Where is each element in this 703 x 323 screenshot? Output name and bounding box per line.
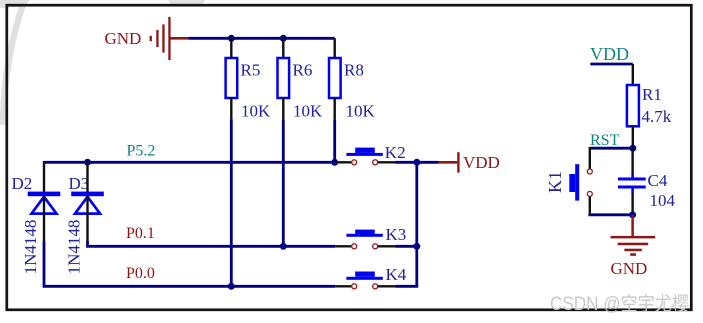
wire: P0.0 rail to K4 [231,285,335,288]
wire: RST rail [590,147,633,150]
node junction at R5 top [228,35,235,42]
node junction R5 / P0.0 [228,283,235,290]
node junction R6 / P0.1 [280,243,287,250]
node junction RST [629,145,636,152]
svg-text:VDD: VDD [590,44,629,64]
svg-text:104: 104 [650,191,676,210]
wire: R8 down to K2 rail [333,119,336,162]
diode D2 [12,161,61,274]
svg-text:10K: 10K [241,102,271,121]
svg-text:VDD: VDD [463,153,500,172]
ground power port GND (top-left) [105,17,189,60]
diode D3 [65,162,104,274]
resistor R6 [278,38,324,120]
node junction K2 / vertical bus [413,159,420,166]
power port VDD (left section) [439,152,500,172]
svg-text:K3: K3 [386,225,407,244]
watermark corner smear [0,0,30,8]
wire: top rail GND to resistors [189,37,335,40]
resistor R1 [627,64,672,148]
wire: VDD stub [590,63,633,66]
svg-text:RST: RST [590,132,620,149]
node junction at R6 top [280,35,287,42]
svg-text:K2: K2 [385,143,406,162]
svg-text:K1: K1 [545,171,565,193]
svg-text:10K: 10K [346,102,376,121]
svg-text:1N4148: 1N4148 [65,220,84,275]
wire: K3 to vertical bus [396,245,417,248]
svg-text:D2: D2 [12,174,33,193]
watermark arc top-left [3,0,26,125]
svg-text:R6: R6 [293,61,313,80]
wire: P0.1 rail to K3 [283,245,335,248]
svg-text:1N4148: 1N4148 [21,220,40,275]
node junction C4 / K1 bottom [629,211,636,218]
switch K1 (vertical) [545,147,592,213]
switch K3 [335,225,406,249]
svg-text:10K: 10K [293,102,323,121]
node junction K3 / vertical bus [413,243,420,250]
svg-text:P0.1: P0.1 [126,225,155,242]
resistor R8 [329,38,376,120]
svg-text:GND: GND [105,29,142,48]
wire: R6 down to P0.1 [282,119,285,246]
svg-text:R8: R8 [344,61,364,80]
svg-text:D3: D3 [69,174,90,193]
ground symbol GND (right section) [611,215,656,278]
svg-text:R1: R1 [642,85,662,104]
capacitor C4 [618,148,676,215]
svg-text:C4: C4 [648,171,668,190]
switch K2 [335,143,406,165]
node junction D3 top [84,159,91,166]
svg-text:GND: GND [611,259,648,278]
wire: right vertical bus [415,162,418,286]
wire: K1 bottom to C4 bottom [590,213,633,214]
wire: K2 to VDD junction [396,161,439,164]
svg-text:P0.0: P0.0 [126,265,155,282]
wire: D3 down to P0.1 corner [88,241,284,246]
wire: K4 to vertical bus [396,285,419,288]
watermark blob top [168,0,206,6]
svg-text:K4: K4 [386,265,407,284]
svg-text:CSDN @空宇尤樱: CSDN @空宇尤樱 [550,293,689,315]
svg-text:R5: R5 [241,61,261,80]
svg-text:4.7k: 4.7k [642,107,672,126]
wire: P5.2 rail [44,161,335,164]
svg-text:P5.2: P5.2 [127,143,156,160]
resistor R5 [226,38,271,120]
wire: R5 down to P0.0 [230,119,233,286]
wire: D2 down to P0.0 corner [44,241,231,286]
node junction R8 / K2 [331,159,338,166]
switch K4 [335,265,406,289]
